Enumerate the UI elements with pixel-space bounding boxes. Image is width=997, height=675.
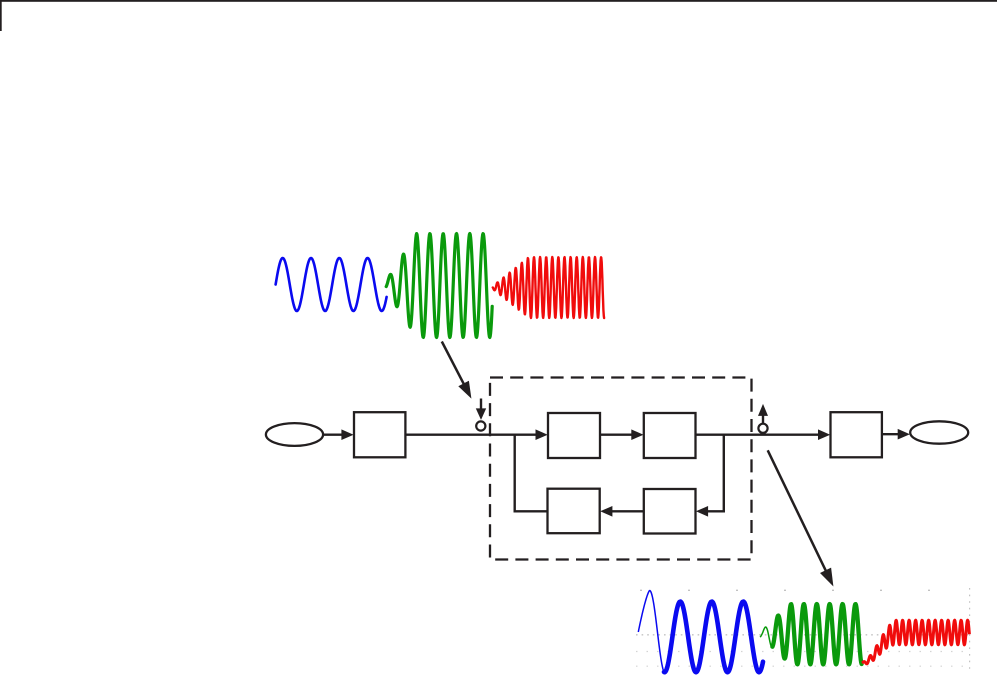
bottom plot right edge dotted (969, 588, 971, 670)
bottom waveform: green thin lead-in (760, 627, 774, 647)
arrow source to block B1 (323, 429, 353, 440)
feedback tap wire down (708, 435, 724, 512)
wire B1 to subsystem (405, 434, 537, 436)
arrow up out of node N2 (758, 404, 768, 424)
top waveform: blue low-frequency sine (276, 258, 387, 311)
dashed subsystem box (490, 378, 752, 560)
arrowhead into block B2 (536, 429, 548, 440)
arrow B4 to sink ellipse (882, 429, 910, 440)
node N1 circle (476, 421, 485, 430)
page left border tick (0, 0, 2, 31)
bottom waveform: blue thick sine (664, 602, 763, 673)
block B5 (bottom-right inner) (644, 489, 696, 534)
source ellipse (266, 423, 323, 446)
bottom plot gridline y651 (636, 651, 970, 653)
block B3 (top-right inner) (644, 413, 696, 458)
page top rule (0, 0, 997, 2)
block B4 (output block) (831, 412, 882, 457)
arrow from output wire to bottom waveform (768, 450, 834, 586)
arrowhead into block B4 (818, 429, 830, 440)
sink ellipse (910, 421, 968, 443)
bottom waveform: red high-frequency sine (862, 620, 969, 664)
arrowhead into B5 right edge (696, 506, 708, 517)
short arrow into node N1 (476, 399, 486, 420)
arrow B2 to B3 (600, 429, 644, 440)
block B2 (top-left inner) (548, 413, 600, 458)
node N2 circle (758, 424, 767, 433)
bottom plot gridline y666 (636, 665, 970, 667)
wire B3 to block B4, through node N2 (696, 434, 821, 436)
top waveform: green medium-frequency sine (386, 234, 492, 338)
bottom plot gridline y590 (640, 589, 966, 591)
bottom waveform: green thick sine (772, 604, 861, 664)
arrow B5 to B4b (600, 506, 644, 517)
top waveform: red high-frequency sine (493, 257, 604, 318)
block B1 (354, 412, 405, 457)
bottom plot gridline y635 (636, 634, 970, 636)
feedback return wire up to main line (515, 435, 548, 512)
arrow from green wave to input node (442, 342, 472, 399)
bottom waveform: blue thin lead-in (638, 591, 673, 674)
block B4b (bottom-left inner) (548, 489, 600, 534)
